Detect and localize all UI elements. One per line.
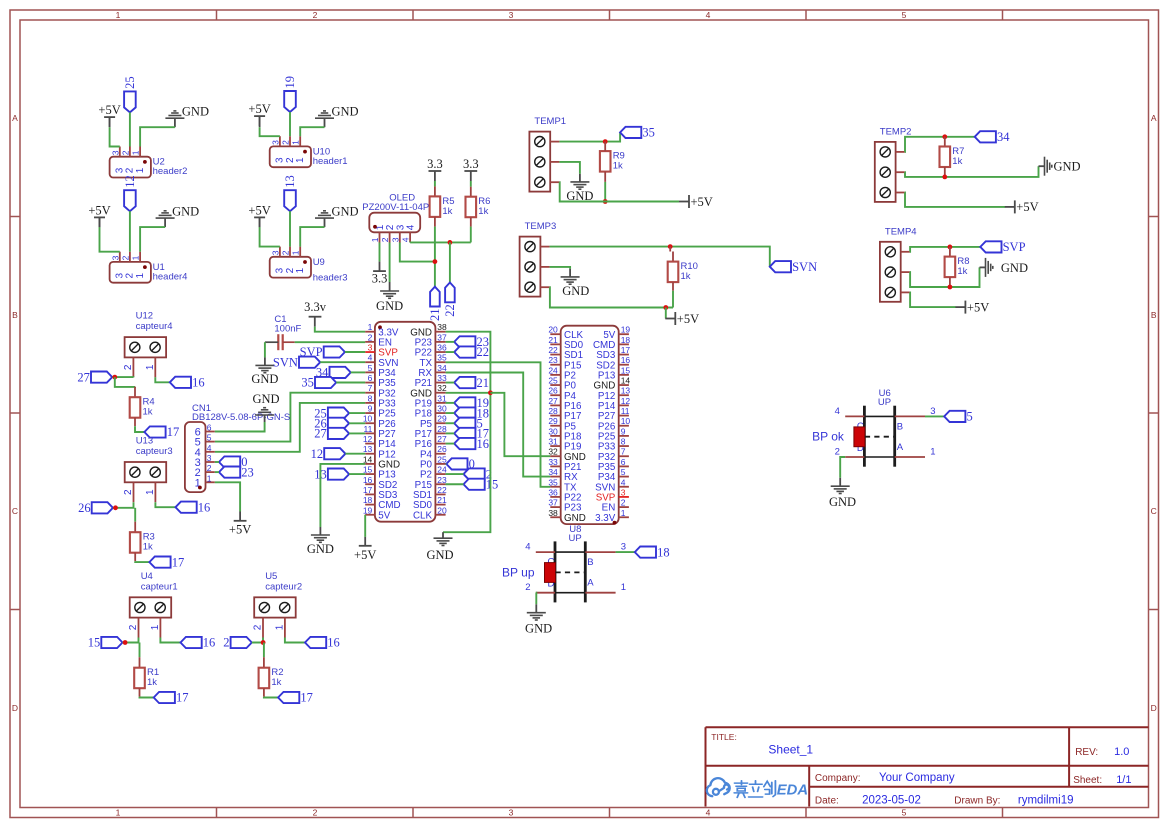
net flag 18	[635, 547, 656, 558]
wire down to resistor	[115, 377, 135, 387]
svg-text:+5V: +5V	[354, 548, 376, 562]
pin 20 CLK of IC	[435, 514, 445, 516]
svg-text:1: 1	[274, 624, 285, 630]
svg-text:7: 7	[621, 447, 626, 457]
wire CN1 pin1 to +5V	[215, 482, 240, 511]
wire R5 to junction	[434, 227, 436, 287]
wire	[345, 351, 365, 353]
svg-text:21: 21	[428, 309, 442, 322]
pin 2 of U10	[289, 136, 291, 146]
pin 13 P12 of IC	[365, 453, 375, 455]
svg-text:6: 6	[621, 457, 626, 467]
pin 29 P5 of U8	[550, 425, 560, 427]
svg-text:2: 2	[207, 463, 212, 473]
pin 16 SD2 of IC	[365, 483, 375, 485]
svg-text:1k: 1k	[442, 206, 452, 217]
svg-text:12: 12	[621, 396, 631, 406]
svg-text:TEMP3: TEMP3	[525, 221, 557, 232]
svg-text:2: 2	[223, 636, 229, 650]
svg-text:1k: 1k	[147, 677, 157, 688]
wire pin3 to flag	[616, 551, 635, 553]
pin 3 of TEMP3	[540, 286, 549, 288]
resistor R2 1k	[259, 668, 270, 689]
svg-text:1k: 1k	[143, 407, 153, 418]
pin 3 of U8	[585, 551, 615, 553]
svg-text:17: 17	[172, 555, 185, 569]
net flag 15	[464, 479, 485, 490]
net flag 16	[170, 377, 191, 388]
+5V right of TEMP2	[1014, 200, 1016, 213]
net flag 25	[328, 408, 349, 419]
svg-text:20: 20	[437, 505, 447, 515]
net flag 26	[92, 502, 113, 513]
svg-text:25: 25	[437, 454, 447, 464]
svg-text:25: 25	[123, 76, 137, 89]
svg-text:3.3: 3.3	[372, 272, 388, 286]
pin 8 P33 of U8	[619, 445, 629, 447]
svg-text:36: 36	[548, 487, 558, 497]
svg-text:Company:: Company:	[815, 773, 861, 784]
svg-text:19: 19	[363, 505, 373, 515]
GND symbol	[324, 218, 326, 227]
svg-text:4: 4	[368, 353, 373, 363]
pin 35 TX of U8	[550, 486, 560, 488]
wire pin2 to GND	[535, 593, 538, 605]
svg-text:2: 2	[281, 250, 291, 255]
net flag SVP	[980, 241, 1001, 252]
svg-text:REV:: REV:	[1075, 747, 1098, 758]
svg-text:1: 1	[145, 489, 156, 495]
svg-text:GND: GND	[829, 495, 856, 509]
svg-text:35: 35	[642, 126, 655, 140]
pin 23 P15 of U8	[550, 364, 560, 366]
svg-text:3: 3	[270, 140, 280, 145]
svg-text:4: 4	[706, 10, 711, 20]
pin 10 P26 of IC	[365, 422, 375, 424]
pin 27 P16 of IC	[435, 443, 445, 445]
svg-text:A: A	[1151, 113, 1157, 123]
pin 1 of OLED	[379, 232, 381, 242]
pin 2 of OLED	[389, 232, 391, 242]
pin 3 SVP of U8	[619, 496, 629, 498]
wire	[351, 371, 366, 373]
pin 1 3.3V of U8	[619, 516, 629, 518]
wire C1 to EN pin	[295, 341, 366, 343]
pin 3 of TEMP1	[550, 181, 559, 183]
svg-text:11: 11	[621, 406, 630, 416]
junction	[488, 390, 493, 395]
pin 3 of TEMP4	[901, 291, 910, 293]
wire P32 pin7 to CN1 pin5	[215, 393, 365, 442]
wire pin2 to GND	[840, 457, 845, 478]
wire junction down to flag 22	[449, 242, 451, 282]
svg-text:capteur2: capteur2	[265, 581, 302, 592]
pin 17 SD3 of IC	[365, 493, 375, 495]
pin 12 P14 of IC	[365, 443, 375, 445]
wire pin1 to flag 16	[155, 377, 170, 382]
net flag 34	[975, 131, 996, 142]
resistor R9 1k	[600, 151, 611, 172]
net flag 34	[330, 367, 351, 378]
net flag 27	[91, 372, 112, 383]
svg-text:23: 23	[548, 355, 558, 365]
svg-text:BP ok: BP ok	[812, 430, 845, 444]
junction	[113, 505, 118, 510]
junction	[123, 640, 128, 645]
net flag 17	[454, 428, 475, 439]
wire to flag 17	[135, 560, 149, 563]
GND right of TEMP2	[1039, 165, 1045, 167]
resistor R1 1k	[134, 668, 145, 689]
pin 14 GND of IC	[365, 463, 375, 465]
wire pin1 to flag 16	[155, 502, 175, 507]
svg-text:2: 2	[525, 582, 530, 593]
net flag 16	[454, 438, 475, 449]
svg-text:13: 13	[363, 444, 373, 454]
svg-text:3: 3	[368, 343, 373, 353]
pin 1 of U6	[895, 456, 925, 458]
pin 5 P34 of IC	[365, 371, 375, 373]
pin1 mark U1	[143, 265, 147, 269]
pin 3 of U1	[119, 252, 121, 262]
pin 6 P35 of U8	[619, 465, 629, 467]
svg-text:3: 3	[621, 542, 626, 553]
pin1 mark CN1	[198, 486, 202, 490]
svg-text:34: 34	[437, 363, 447, 373]
junction	[942, 175, 947, 180]
svg-text:100nF: 100nF	[274, 324, 301, 335]
wire 3.3v to IC pin1	[315, 327, 365, 332]
wire	[446, 432, 455, 434]
svg-text:A: A	[897, 442, 904, 453]
svg-text:U4: U4	[141, 571, 153, 582]
wire pin2 to junction	[113, 502, 134, 508]
svg-text:14: 14	[621, 376, 631, 386]
GND symbol	[164, 218, 166, 227]
svg-text:2: 2	[128, 624, 139, 630]
svg-text:12: 12	[363, 434, 373, 444]
wire TEMP4 pin1 up and right	[910, 247, 980, 252]
junction	[948, 245, 953, 250]
svg-text:1: 1	[368, 322, 373, 332]
pin 3 of U6	[895, 415, 925, 417]
net flag 27	[328, 428, 349, 439]
GND symbol	[324, 118, 326, 127]
svg-text:2: 2	[368, 332, 373, 342]
svg-text:4: 4	[525, 542, 530, 553]
junction	[668, 244, 673, 249]
net flag SVP	[324, 346, 345, 357]
wire junction to U8 pin32	[490, 393, 550, 456]
pin 37 P23 of U8	[550, 506, 560, 508]
wire 5V pin19 down	[364, 515, 366, 537]
svg-text:Sheet_1: Sheet_1	[768, 743, 813, 757]
svg-text:29: 29	[548, 416, 558, 426]
svg-text:Date:: Date:	[815, 795, 839, 806]
wire pin2 to junction	[123, 638, 139, 643]
wire R9 to +5V rail	[604, 182, 606, 202]
pin 15 P13 of IC	[365, 473, 375, 475]
wire GND pin14	[320, 464, 365, 527]
JLC EDA logo cloud	[707, 778, 730, 796]
wire	[445, 463, 448, 465]
pin 2 EN of U8	[619, 506, 629, 508]
svg-text:1k: 1k	[957, 266, 967, 277]
net flag 21	[430, 287, 440, 307]
svg-text:1k: 1k	[952, 156, 962, 167]
svg-text:SVN: SVN	[792, 260, 817, 274]
svg-text:3: 3	[509, 807, 514, 817]
wire R10 to +5V rail	[672, 291, 674, 308]
wire pin1 to flag 16	[160, 638, 180, 643]
pin 1 of U2	[139, 147, 141, 157]
svg-text:1: 1	[145, 364, 156, 370]
svg-text:35: 35	[301, 376, 314, 390]
svg-text:A: A	[12, 113, 18, 123]
wire	[260, 227, 280, 247]
net flag 0 at CN1 pin3	[219, 456, 240, 467]
wire pin3 to flag	[925, 415, 944, 417]
button actuator	[854, 427, 865, 447]
wire	[446, 483, 464, 485]
svg-text:1: 1	[135, 273, 146, 279]
net flag 25	[124, 91, 136, 112]
pin 25 P0 of IC	[435, 463, 445, 465]
R8 leads	[949, 247, 951, 257]
svg-text:11: 11	[363, 424, 372, 434]
svg-text:35: 35	[548, 477, 558, 487]
net flag 2	[464, 468, 485, 479]
wire pin1 to flag 16	[285, 638, 305, 643]
GND at TEMP1	[579, 174, 581, 182]
net flag SVN	[299, 357, 320, 368]
pin 31 P19 of IC	[435, 402, 445, 404]
GND at TEMP3	[569, 269, 571, 277]
svg-text:4: 4	[621, 477, 626, 487]
pin 31 P19 of U8	[550, 445, 560, 447]
pin 19 5V of U8	[619, 333, 629, 335]
svg-text:16: 16	[363, 475, 373, 485]
svg-text:+5V: +5V	[248, 203, 270, 217]
wire TEMP3 pin3 to +5V	[550, 287, 673, 307]
svg-text:GND: GND	[332, 104, 359, 118]
svg-text:+5V: +5V	[1016, 200, 1038, 214]
svg-text:19: 19	[283, 76, 297, 89]
svg-text:1k: 1k	[681, 271, 691, 282]
svg-text:3: 3	[390, 237, 400, 242]
svg-text:C: C	[12, 506, 18, 516]
+5V below TEMP3 rail	[674, 312, 676, 325]
net flag 0	[446, 458, 467, 469]
pin 2 of U8	[536, 592, 555, 594]
wire pin2 to junction	[112, 376, 133, 378]
net flag 13	[284, 190, 296, 211]
svg-text:25: 25	[548, 376, 558, 386]
pin 20 CLK of U8	[550, 333, 560, 335]
net flag 18	[454, 407, 475, 418]
wire RX pin34 to U8 pin34	[446, 373, 551, 477]
connector U10 (header1) 3-pin header	[270, 146, 311, 167]
svg-text:D: D	[12, 703, 18, 713]
svg-text:2: 2	[380, 237, 390, 242]
pin 24 P2 of IC	[435, 473, 445, 475]
wire	[336, 382, 365, 384]
pin 2 of TEMP2	[896, 171, 905, 173]
IC module U8 UP (right)	[561, 326, 619, 524]
junction	[448, 240, 453, 245]
pin 11 P27 of U8	[619, 415, 629, 417]
svg-text:6: 6	[368, 373, 373, 383]
pin 8 P33 of IC	[365, 402, 375, 404]
wire	[215, 471, 219, 473]
svg-text:GND: GND	[1054, 160, 1081, 174]
svg-text:GND: GND	[182, 104, 209, 118]
svg-text:2: 2	[313, 807, 318, 817]
pin 2 of U5	[262, 618, 264, 638]
wire TEMP2 pin1 up and right	[905, 137, 975, 152]
wire	[446, 341, 455, 343]
pin 34 RX of U8	[550, 476, 560, 478]
pin1 mark IC	[378, 325, 382, 329]
net flag 16	[181, 637, 202, 648]
svg-text:1: 1	[291, 140, 301, 145]
pin 21 SD0 of IC	[435, 504, 445, 506]
pin 7 P32 of IC	[365, 392, 375, 394]
net flag 17	[149, 557, 170, 568]
svg-text:4: 4	[406, 224, 417, 230]
wire	[289, 112, 291, 136]
GND under button	[535, 604, 537, 612]
svg-text:rymdilmi19: rymdilmi19	[1018, 795, 1074, 807]
svg-text:17: 17	[167, 425, 180, 439]
svg-text:capteur4: capteur4	[136, 321, 173, 332]
svg-text:PZ200V-11-04P: PZ200V-11-04P	[362, 202, 429, 213]
svg-text:2: 2	[123, 364, 134, 370]
svg-text:2: 2	[120, 150, 130, 155]
svg-text:32: 32	[548, 447, 558, 457]
net flag 17	[144, 426, 165, 437]
wire	[260, 127, 280, 136]
svg-text:GND: GND	[376, 299, 403, 313]
pin 10 P26 of U8	[619, 425, 629, 427]
pin 1 of U9	[299, 247, 301, 257]
pin 2 of U4	[138, 618, 140, 638]
svg-text:3.3: 3.3	[427, 157, 443, 171]
svg-text:27: 27	[314, 427, 327, 441]
+5V power	[254, 216, 265, 218]
svg-text:GND: GND	[172, 204, 199, 218]
svg-text:TEMP1: TEMP1	[534, 116, 566, 127]
svg-text:31: 31	[437, 393, 447, 403]
svg-text:SVN: SVN	[273, 355, 298, 369]
svg-text:B: B	[897, 421, 903, 432]
svg-text:2: 2	[253, 624, 264, 630]
net flag 12	[124, 190, 136, 211]
pin 1 of U13	[154, 482, 156, 502]
pin 26 P4 of U8	[550, 394, 560, 396]
svg-text:15: 15	[486, 477, 499, 491]
wire	[345, 453, 365, 455]
svg-text:27: 27	[548, 396, 558, 406]
wire to flag 17	[264, 696, 278, 699]
wire down to resistor	[134, 508, 136, 522]
pin 30 P18 of U8	[550, 435, 560, 437]
svg-text:24: 24	[437, 465, 447, 475]
wire	[446, 473, 464, 475]
svg-text:Sheet:: Sheet:	[1073, 775, 1102, 786]
wire	[349, 432, 365, 434]
net flag 17	[278, 692, 299, 703]
svg-text:U9: U9	[313, 257, 325, 268]
svg-text:header2: header2	[153, 166, 188, 177]
pin 12 P14 of U8	[619, 404, 629, 406]
svg-text:18: 18	[363, 495, 373, 505]
R10 leads	[669, 247, 671, 252]
junction	[433, 259, 438, 264]
svg-text:1.0: 1.0	[1114, 746, 1129, 758]
svg-text:17: 17	[363, 485, 373, 495]
+5V power	[254, 115, 265, 117]
svg-text:26: 26	[437, 444, 447, 454]
svg-text:1: 1	[150, 624, 161, 630]
svg-text:+5V: +5V	[98, 103, 120, 117]
connector U9 (header3) 3-pin header	[270, 257, 311, 278]
pin 32 GND of IC	[435, 392, 445, 394]
svg-text:Your Company: Your Company	[879, 772, 955, 784]
pin 4 SVN of IC	[365, 361, 375, 363]
wire	[100, 227, 120, 252]
pin 18 CMD of U8	[619, 343, 629, 345]
wire pin2 to junction	[252, 638, 263, 643]
junction	[663, 305, 668, 310]
pin1 mark U9	[303, 260, 307, 264]
svg-text:12: 12	[311, 447, 324, 461]
svg-text:34: 34	[997, 130, 1010, 144]
net flag 35	[620, 127, 641, 138]
svg-text:1: 1	[131, 255, 141, 260]
resistor R7 1k	[940, 147, 951, 168]
svg-text:3.3V: 3.3V	[595, 513, 616, 524]
svg-text:18: 18	[657, 545, 670, 559]
GND symbol	[174, 118, 176, 127]
svg-text:EDA: EDA	[777, 782, 808, 798]
svg-text:+5V: +5V	[248, 102, 270, 116]
pin 2 of TEMP1	[550, 161, 559, 163]
svg-text:capteur1: capteur1	[141, 581, 178, 592]
net flag 19	[284, 91, 296, 112]
svg-text:4: 4	[401, 237, 411, 242]
net flag 13	[328, 469, 349, 480]
+5V below IC	[364, 537, 366, 546]
wire	[129, 211, 131, 252]
wire TX pin35 to U8 pin35	[446, 362, 551, 487]
svg-text:1: 1	[291, 250, 301, 255]
pin 22 SD1 of IC	[435, 493, 445, 495]
wire	[349, 422, 365, 424]
wire TEMP4 pin2 to GND rail	[910, 267, 980, 287]
junction	[261, 640, 266, 645]
svg-text:2: 2	[313, 10, 318, 20]
GND at OLED pin2	[389, 243, 391, 283]
svg-text:16: 16	[203, 636, 216, 650]
svg-text:5: 5	[368, 363, 373, 373]
pin 36 P22 of U8	[550, 496, 560, 498]
wire	[349, 473, 365, 475]
svg-text:16: 16	[198, 500, 211, 514]
pin 35 TX of IC	[435, 361, 445, 363]
svg-text:+5V: +5V	[677, 312, 699, 326]
svg-text:GND: GND	[307, 542, 334, 556]
